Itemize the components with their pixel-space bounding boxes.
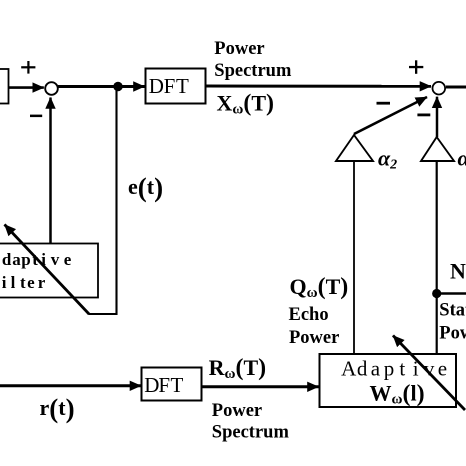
svg-text:Rω(T): Rω(T) <box>209 355 267 382</box>
svg-text:Power: Power <box>212 401 262 421</box>
svg-text:Xω(T): Xω(T) <box>217 91 275 118</box>
svg-text:α: α <box>458 145 466 170</box>
svg-text:Stationary: Stationary <box>439 301 466 321</box>
svg-text:Power: Power <box>289 328 339 348</box>
svg-text:N: N <box>450 259 466 284</box>
svg-text:DFT: DFT <box>144 373 183 397</box>
svg-text:Spectrum: Spectrum <box>212 423 290 443</box>
svg-text:r(t): r(t) <box>40 394 75 424</box>
svg-text:DFT: DFT <box>149 74 189 98</box>
svg-text:Power: Power <box>439 324 466 344</box>
svg-text:Qω(T): Qω(T) <box>290 274 349 301</box>
svg-text:Spectrum: Spectrum <box>214 61 292 81</box>
svg-text:e(t): e(t) <box>128 173 163 203</box>
svg-text:Echo: Echo <box>289 305 329 325</box>
svg-text:Power: Power <box>214 39 264 59</box>
